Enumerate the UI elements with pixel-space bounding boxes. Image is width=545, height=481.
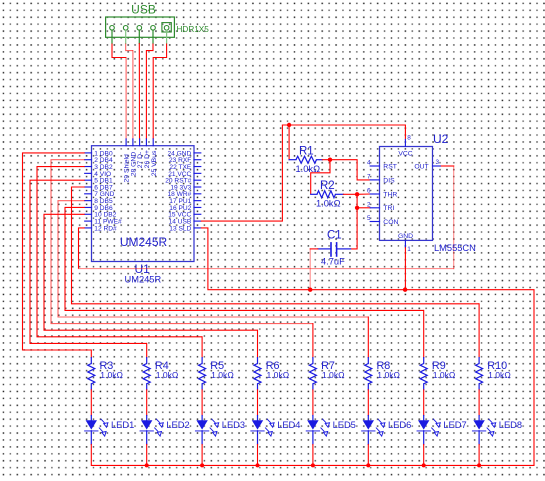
wire net VCC: U1 pin 14 to U2 pin 8 [201, 125, 406, 221]
wire W5: USB pin5 to U1 pin25 [153, 44, 166, 140]
wire: USB pin 4 stub [152, 30, 154, 43]
svg-text:LED3: LED3 [222, 420, 245, 430]
svg-text:7: 7 [367, 173, 371, 180]
U1 left pin 2 stub [85, 159, 92, 161]
connector J1 USB HDR1X5 [106, 17, 175, 37]
resistor R8 [365, 358, 372, 390]
resistor R10 [476, 358, 483, 390]
svg-text:1: 1 [407, 246, 411, 253]
svg-text:TRI: TRI [383, 205, 394, 212]
U1 left pin 11 stub [85, 220, 92, 222]
wire net RD#: U1 pin 12 to U2 OUT pin 3 [79, 228, 85, 269]
LED LED6 [362, 416, 385, 445]
wire: R5 to LED3 [201, 390, 203, 416]
U1 right pin 14 stub [194, 220, 201, 222]
wire: R6 to LED4 [257, 390, 259, 416]
LED LED4 [251, 416, 274, 445]
svg-text:4: 4 [367, 160, 371, 167]
junction: LED4 on rail [256, 463, 260, 467]
wire: branch 7 feed down [423, 310, 425, 357]
U1 right pin 21 stub [194, 172, 201, 174]
svg-text:USB: USB [131, 3, 156, 17]
svg-text:OUT: OUT [414, 163, 428, 170]
wire W2: USB pin2 to U1 pin28 [126, 44, 133, 51]
U2 top pin 8 VCC stub [404, 140, 406, 147]
wire: R1 right to junction [322, 159, 330, 161]
resistor R2 [311, 191, 344, 198]
U2 left pin 4 RST stub [370, 165, 379, 167]
wire: R1 node to U2 DIS pin 7 [330, 160, 370, 180]
svg-text:13 SLD: 13 SLD [169, 225, 191, 232]
wire W1: USB pin1 to U1 pin29 [112, 44, 126, 58]
svg-text:1.0kΩ: 1.0kΩ [100, 370, 123, 380]
wire net DB3: U1 pin 10 to R6 [44, 214, 258, 330]
U1 right pin 23 stub [194, 159, 201, 161]
wire: C1 left to GND rail [310, 248, 318, 250]
wire: branch 6 feed down [367, 317, 369, 358]
U1 right pin 18 stub [194, 193, 201, 195]
svg-text:CON: CON [383, 219, 398, 226]
wire: USB pin 1 stub [111, 30, 113, 43]
svg-text:1.0kΩ: 1.0kΩ [316, 199, 341, 209]
svg-text:LED5: LED5 [333, 420, 356, 430]
U1 left pin 8 stub [85, 200, 92, 202]
U2 left pin 5 CON stub [370, 221, 379, 223]
U1 right pin 15 stub [194, 213, 201, 215]
wire W3: USB pin3 to U1 pin27 [138, 44, 140, 140]
svg-text:UM245R: UM245R [125, 275, 162, 285]
wire: LED2 cathode to rail [146, 445, 148, 466]
junction: LED7 on rail [422, 463, 426, 467]
wire net DB7: U1 pin 6 to R10 [72, 187, 480, 304]
U1 left pin 7 stub [85, 193, 92, 195]
svg-text:GND: GND [398, 233, 413, 240]
U1 right pin 24 stub [194, 152, 201, 154]
svg-text:3: 3 [436, 159, 440, 166]
wire net DB1: U1 pin 5 to R4 [30, 180, 147, 343]
U1 left pin 9 stub [85, 206, 92, 208]
svg-text:1.0kΩ: 1.0kΩ [267, 370, 290, 380]
wire net DB6: U1 pin 9 to R9 [65, 207, 424, 310]
svg-text:5: 5 [367, 215, 371, 222]
junction: LED8 on rail [477, 463, 481, 467]
wire: LED8 cathode to rail [478, 445, 480, 466]
wire: U2 pin1 GND down to rail [404, 248, 406, 290]
wire: VCC junction down to R1 left [288, 125, 290, 160]
resistor R3 [88, 358, 95, 390]
U1 left pin 1 stub [85, 152, 92, 154]
svg-text:LED4: LED4 [277, 420, 300, 430]
wire: R8 to LED6 [367, 390, 369, 416]
LED LED7 [417, 416, 440, 445]
wire: LED7 cathode to rail [423, 445, 425, 466]
LED LED3 [196, 416, 219, 445]
U2 left pin 7 DIS stub [370, 179, 379, 181]
wire net DB5: U1 pin 8 to R8 [58, 201, 368, 317]
wire net DB0: U1 pin 1 to R3 [23, 153, 92, 350]
wire: LED1 cathode to rail [90, 445, 92, 466]
svg-text:12 RD#: 12 RD# [94, 225, 117, 232]
svg-text:8: 8 [407, 134, 411, 141]
svg-text:RST: RST [383, 163, 397, 170]
svg-text:R1: R1 [299, 145, 314, 157]
svg-text:4.7uF: 4.7uF [321, 256, 345, 266]
U1 left pin 6 stub [85, 186, 92, 188]
wire: USB pin 3 stub [138, 30, 140, 43]
svg-text:DIS: DIS [383, 177, 395, 184]
junction: VCC branch to R1 [287, 123, 291, 127]
U1 right pin 16 stub [194, 206, 201, 208]
svg-text:R2: R2 [320, 180, 335, 192]
svg-text:1.0kΩ: 1.0kΩ [322, 370, 345, 380]
U1 left pin 10 stub [85, 213, 92, 215]
junction: LED6 on rail [366, 463, 370, 467]
wire: branch 8 feed down [478, 304, 480, 358]
svg-text:LED8: LED8 [499, 420, 522, 430]
junction: U2 GND-rail [403, 288, 407, 292]
U1 top pin 28 stub [132, 139, 134, 146]
U2 left pin 2 TRI stub [370, 207, 379, 209]
svg-text:U2: U2 [433, 132, 449, 146]
svg-text:VCC: VCC [398, 150, 412, 157]
U1 right pin 13 stub [194, 227, 201, 229]
U1 top pin 25 stub [152, 139, 154, 146]
svg-text:1.0kΩ: 1.0kΩ [377, 370, 400, 380]
LED LED8 [473, 416, 496, 445]
svg-text:LM555CN: LM555CN [434, 243, 476, 253]
U1 right pin 17 stub [194, 200, 201, 202]
svg-text:1.0kΩ: 1.0kΩ [211, 370, 234, 380]
junction: LED5 on rail [311, 463, 315, 467]
svg-text:2: 2 [367, 201, 371, 208]
U1 right pin 19 stub [194, 186, 201, 188]
svg-text:C1: C1 [327, 230, 342, 242]
capacitor C1 [318, 243, 351, 256]
wire: USB pin 2 stub [125, 30, 127, 43]
IC U1 UM245R body [92, 146, 195, 262]
U1 top pin 29 stub [125, 139, 127, 146]
U2 left pin 6 THR stub [370, 193, 379, 195]
wire: TRI node to U2 pin 2 [357, 207, 370, 209]
U1 left pin 5 stub [85, 179, 92, 181]
U1 top pin 26 stub [145, 139, 147, 146]
svg-text:LED2: LED2 [166, 420, 189, 430]
wire: TRI node down to C1 right [351, 208, 358, 249]
svg-text:UM245R: UM245R [120, 235, 168, 249]
wire: branch 3 feed down [201, 337, 203, 358]
resistor R7 [309, 358, 316, 390]
wire: THR node to U2 pin 6 [357, 193, 370, 195]
svg-text:LED6: LED6 [388, 420, 411, 430]
wire: USB pin 5 stub [166, 30, 168, 43]
resistor R4 [143, 358, 150, 390]
svg-text:1.0kΩ: 1.0kΩ [433, 370, 456, 380]
U1 left pin 3 stub [85, 166, 92, 168]
svg-text:HDR1X5: HDR1X5 [177, 25, 210, 34]
U1 left pin 4 stub [85, 172, 92, 174]
svg-text:THR: THR [383, 191, 397, 198]
junction: C1-GND rail [308, 288, 312, 292]
junction: LED3 on rail [200, 463, 204, 467]
svg-text:1.0kΩ: 1.0kΩ [156, 370, 179, 380]
svg-text:6: 6 [367, 188, 371, 195]
svg-text:1.0kΩ: 1.0kΩ [488, 370, 511, 380]
wire: branch 5 feed down [312, 324, 314, 358]
resistor R1 [289, 156, 322, 163]
junction: R1 right node [328, 158, 332, 162]
resistor R9 [420, 358, 427, 390]
wire net DB4: U1 pin 2 to R7 [51, 160, 313, 324]
junction: TRI node [355, 206, 359, 210]
wire: THR node down to TRI node [356, 194, 358, 208]
LED LED5 [307, 416, 330, 445]
svg-text:LED1: LED1 [111, 420, 134, 430]
resistor R5 [199, 358, 206, 390]
LED LED1 [85, 416, 108, 445]
wire: LED6 cathode to rail [367, 445, 369, 466]
IC U2 LM555CN body [380, 147, 433, 241]
junction: THR node [355, 192, 359, 196]
U1 right pin 20 stub [194, 179, 201, 181]
wire: branch 2 feed down [146, 343, 148, 357]
svg-text:LED7: LED7 [443, 420, 466, 430]
wire net GND: U1 pin 13 to ground rail [91, 228, 534, 465]
wire net DB2: U1 pin 3 to R5 [37, 167, 202, 337]
wire: R3 to LED1 [90, 390, 92, 416]
wire: R1 node down to R2 left [311, 160, 330, 195]
wire: R10 to LED8 [478, 390, 480, 416]
wire: R7 to LED5 [312, 390, 314, 416]
svg-text:25 VBus: 25 VBus [151, 150, 158, 176]
wire W4: USB pin4 to U1 pin26 [146, 44, 153, 140]
U1 left pin 12 stub [85, 227, 92, 229]
wire: R4 to LED2 [146, 390, 148, 416]
U2 bottom pin 1 GND stub [404, 240, 406, 247]
U1 top pin 27 stub [139, 139, 141, 146]
wire: LED5 cathode to rail [312, 445, 314, 466]
U1 right pin 22 stub [194, 166, 201, 168]
wire: branch 1 feed down [90, 350, 92, 358]
wire: R2 right to THR junction [343, 193, 357, 195]
resistor R6 [254, 358, 261, 390]
U2 right pin 3 OUT stub [433, 165, 441, 167]
wire: branch 4 feed down [257, 330, 259, 357]
wire: R9 to LED7 [423, 390, 425, 416]
junction: LED2 on rail [145, 463, 149, 467]
wire: LED4 cathode to rail [257, 445, 259, 466]
wire: LED3 cathode to rail [201, 445, 203, 466]
LED LED2 [140, 416, 163, 445]
